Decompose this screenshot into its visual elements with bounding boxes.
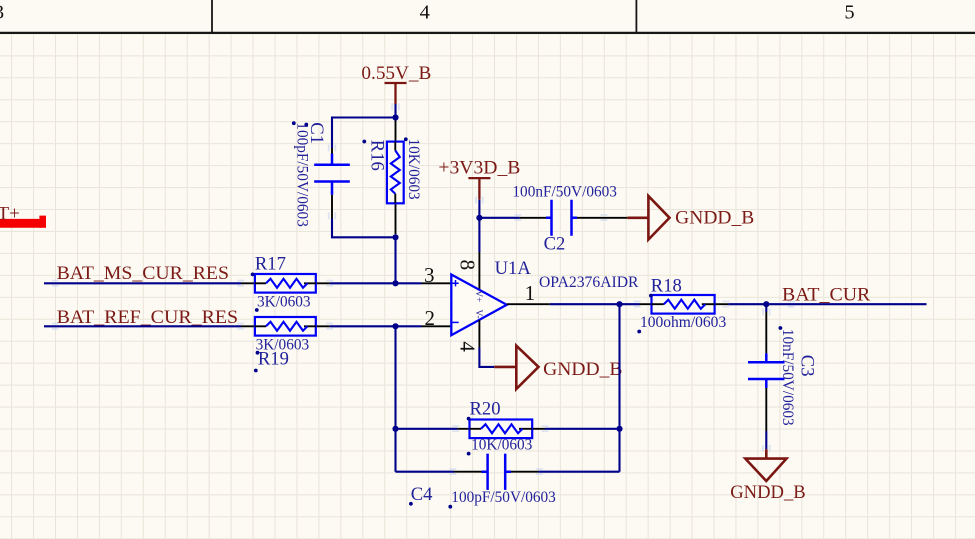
svg-text:5: 5 <box>844 2 854 24</box>
wire R17 to op-amp pin3 <box>330 282 422 284</box>
wire +3V3D junction down to pin8 <box>478 218 480 252</box>
node junction +3V3D_B <box>476 215 482 221</box>
resistor R16 pins <box>395 121 397 235</box>
resistor R17 <box>255 274 316 293</box>
svg-text:C4: C4 <box>411 484 433 505</box>
svg-text:R16: R16 <box>367 140 388 171</box>
wire junction down to C3 <box>765 304 767 312</box>
svg-text:R17: R17 <box>255 254 286 275</box>
wire BAT_MS_CUR_RES to R17 <box>44 282 241 284</box>
pin 8 <box>478 252 480 290</box>
anchor dot R16 <box>404 137 408 141</box>
wire 0.55V_B stem to junction <box>394 104 396 118</box>
resistor R18 <box>652 295 715 314</box>
anchor dot C1 <box>292 121 296 125</box>
power port +3V3D_B <box>468 178 490 200</box>
svg-text:4: 4 <box>420 2 430 24</box>
node junction on pin3 wire <box>392 280 398 286</box>
wire output node down to C4 <box>539 304 620 472</box>
op-amp + sign <box>452 280 458 286</box>
svg-text:3K/0603: 3K/0603 <box>257 293 311 310</box>
wire +3V3D_B to junction <box>478 200 480 218</box>
op-amp - sign <box>452 321 458 323</box>
anchor dot R18 <box>649 294 653 298</box>
faint connection marks <box>52 103 795 475</box>
wire R19 to op-amp pin2 <box>330 325 422 327</box>
resistor R20 pins <box>457 428 545 430</box>
power port GNDD_B at C2 <box>627 196 669 240</box>
svg-text:BAT_MS_CUR_RES: BAT_MS_CUR_RES <box>57 263 229 284</box>
pin 1 output <box>507 303 550 305</box>
svg-text:1: 1 <box>525 281 536 305</box>
anchor dot C4 <box>409 502 413 506</box>
svg-text:100pF/50V/0603: 100pF/50V/0603 <box>294 122 311 227</box>
pin 3 <box>422 282 452 284</box>
svg-text:T+: T+ <box>0 204 20 225</box>
svg-text:3: 3 <box>424 263 435 287</box>
svg-text:0.55V_B: 0.55V_B <box>361 63 431 84</box>
svg-text:100pF/50V/0603: 100pF/50V/0603 <box>451 489 556 506</box>
node junction R20 left <box>392 426 398 432</box>
wire R20 left <box>396 428 458 430</box>
power port 0.55V_B <box>385 83 407 104</box>
pin 4 <box>478 320 480 348</box>
svg-text:8: 8 <box>455 260 479 271</box>
resistor R16 <box>387 142 404 204</box>
node junction bottom (C1/R16 bottom) <box>392 234 398 240</box>
svg-text:R20: R20 <box>470 399 501 420</box>
sheet border top line <box>0 32 975 34</box>
wire BAT_REF_CUR_RES to R19 <box>44 325 241 327</box>
svg-text:V+: V+ <box>473 290 483 302</box>
wire output to R18 <box>550 303 640 305</box>
resistor R19 pins <box>241 325 330 327</box>
svg-text:BAT_REF_CUR_RES: BAT_REF_CUR_RES <box>57 307 239 328</box>
svg-text:4: 4 <box>456 341 480 352</box>
resistor R17 pins <box>241 282 330 284</box>
anchor dot R17 <box>251 273 255 277</box>
node junction BAT_CUR / C3 <box>763 301 769 307</box>
wire C1 bottom to junction <box>332 219 396 238</box>
capacitor C4 <box>454 454 539 490</box>
wire R20 right to feedback node <box>545 428 620 430</box>
svg-text:GNDD_B: GNDD_B <box>730 482 806 503</box>
svg-text:BAT_CUR: BAT_CUR <box>782 284 871 305</box>
svg-text:+3V3D_B: +3V3D_B <box>438 158 520 179</box>
thick red wire BAT+ <box>0 219 41 228</box>
wire junction down to pin3 net <box>394 237 396 283</box>
svg-text:GNDD_B: GNDD_B <box>543 359 622 380</box>
sheet border divider x=636.4 <box>635 0 637 33</box>
resistor R19 <box>255 317 316 336</box>
svg-text:GNDD_B: GNDD_B <box>675 207 754 228</box>
svg-text:OPA2376AIDR: OPA2376AIDR <box>539 274 639 291</box>
svg-text:V-: V- <box>473 310 483 319</box>
svg-text:10K/0603: 10K/0603 <box>405 139 422 201</box>
pin 2 <box>422 325 452 327</box>
svg-text:3: 3 <box>0 2 4 24</box>
capacitor C3 <box>748 312 785 431</box>
power port GNDD_B at C3 <box>745 449 786 481</box>
wire junction to C1 top <box>332 118 396 149</box>
wire C3 to GNDD_B <box>765 431 767 449</box>
node junction top (C1/R16 top) <box>392 114 398 120</box>
node junction on pin2 wire <box>392 323 398 329</box>
svg-text:U1A: U1A <box>495 258 532 279</box>
anchor dot C3 <box>779 326 783 330</box>
sheet border divider x=212 <box>211 0 213 33</box>
wire R18 to BAT_CUR <box>728 303 926 305</box>
wire junction to C2 <box>479 217 519 219</box>
anchor dot R20 <box>467 417 471 421</box>
capacitor C2 <box>520 200 628 236</box>
wire pin2 junction down to feedback bottom <box>396 326 455 471</box>
resistor R20 <box>470 420 533 439</box>
resistor R18 pins <box>640 303 729 305</box>
wire pin4 to GNDD_B <box>479 348 494 367</box>
node junction R20 right <box>616 426 622 432</box>
power port GNDD_B at pin4 <box>494 346 538 389</box>
svg-text:R18: R18 <box>651 276 682 297</box>
svg-text:C2: C2 <box>544 233 566 254</box>
svg-text:100ohm/0603: 100ohm/0603 <box>640 314 727 331</box>
anchor dot R19 <box>256 351 260 355</box>
capacitor C1 <box>314 148 350 219</box>
svg-text:100nF/50V/0603: 100nF/50V/0603 <box>512 184 617 201</box>
op-amp U1A triangle <box>451 275 507 336</box>
svg-text:10nF/50V/0603: 10nF/50V/0603 <box>779 329 796 426</box>
svg-text:C3: C3 <box>797 355 818 377</box>
node junction output feedback <box>616 301 622 307</box>
svg-text:10K/0603: 10K/0603 <box>471 437 533 454</box>
svg-text:2: 2 <box>425 306 436 330</box>
svg-text:R19: R19 <box>258 349 289 370</box>
